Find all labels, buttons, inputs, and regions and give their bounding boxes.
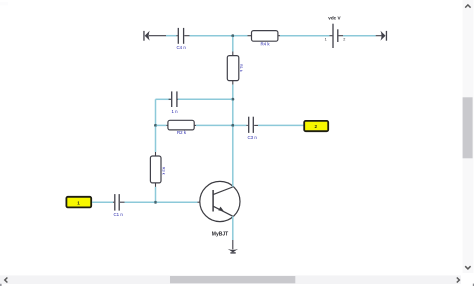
wire [190, 35, 232, 37]
transistor Q1 MyBJT [200, 181, 240, 237]
capacitor C1 [113, 194, 125, 217]
ground left [143, 31, 149, 41]
wire [149, 35, 166, 37]
vertical scrollbar [463, 0, 474, 273]
wire [234, 35, 248, 37]
svg-text:MyBJT: MyBJT [212, 232, 228, 238]
port 2 [304, 121, 328, 131]
wire [343, 35, 376, 37]
voltage source V1 vdc [325, 15, 346, 48]
corner specks [0, 284, 2, 286]
wire emitter [232, 216, 234, 240]
svg-text:1 n: 1 n [172, 109, 179, 114]
node junction D [154, 201, 157, 204]
wire collector [232, 127, 234, 187]
wire [232, 85, 234, 98]
wire [376, 35, 382, 37]
capacitor C4 [177, 28, 190, 50]
svg-text:R3 k: R3 k [161, 167, 165, 175]
wire [155, 99, 157, 124]
wire [166, 35, 177, 37]
horizontal scrollbar [0, 275, 461, 284]
svg-text:vdc V: vdc V [328, 15, 341, 20]
svg-text:2: 2 [343, 38, 345, 42]
wire [155, 127, 157, 153]
resistor R1 [227, 52, 243, 85]
node junction B [231, 98, 234, 101]
svg-text:C4 n: C4 n [177, 45, 187, 50]
wire [157, 201, 198, 203]
svg-text:R1 k: R1 k [239, 64, 243, 72]
wire [157, 124, 167, 126]
wire [198, 201, 214, 203]
node junction E [154, 124, 157, 127]
wire [232, 100, 234, 124]
capacitor C3 [247, 117, 259, 140]
svg-text:1: 1 [325, 38, 327, 42]
wire [258, 124, 304, 126]
ground right [381, 31, 388, 41]
resistor R2 [167, 120, 197, 135]
svg-text:R4 k: R4 k [261, 41, 271, 46]
faint toolbar remnant top-left [0, 2, 8, 6]
port 1 [66, 197, 91, 208]
node junction A [231, 34, 234, 37]
svg-text:R2 k: R2 k [177, 130, 187, 135]
wire [156, 98, 171, 100]
svg-text:1: 1 [77, 200, 80, 205]
svg-text:2: 2 [315, 124, 318, 129]
capacitor C2 [169, 91, 180, 113]
wire [92, 201, 113, 203]
resistor R4 [248, 31, 281, 47]
wire [178, 98, 232, 100]
wire [125, 201, 155, 203]
wire [196, 124, 232, 126]
wire [280, 35, 330, 37]
wire [232, 37, 234, 52]
ground bottom [228, 240, 238, 254]
wire [234, 124, 247, 126]
svg-text:C1 n: C1 n [114, 212, 124, 217]
wire [155, 187, 157, 201]
resistor R3 [150, 152, 165, 187]
node junction C [231, 124, 234, 127]
svg-text:C3 n: C3 n [248, 135, 258, 140]
